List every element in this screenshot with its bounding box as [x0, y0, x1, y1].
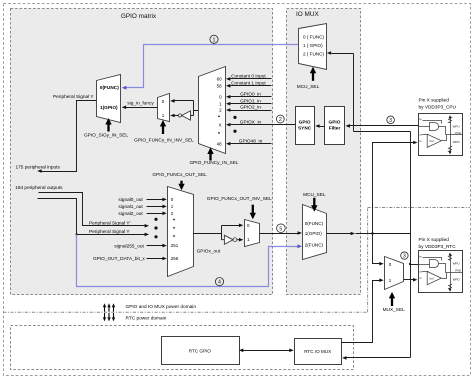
- wire out-inv mux to IO MUX 1(GPIO) (5): [260, 231, 303, 235]
- svg-text:RTC IO MUX: RTC IO MUX: [304, 349, 331, 354]
- svg-text:1: 1: [213, 37, 216, 43]
- svg-text:4: 4: [218, 280, 221, 286]
- wire signal255_out: [114, 243, 167, 249]
- svg-text:ie: ie: [419, 117, 422, 121]
- svg-text:Peripheral Signal Y: Peripheral Signal Y: [53, 94, 94, 100]
- wire sig_in_funcy: [122, 106, 158, 110]
- wire GPIOx_out (output mux to inverter and out-inv mux): [194, 224, 244, 240]
- svg-text:oe: oe: [419, 132, 423, 136]
- svg-text:by VDD3P3_RTC: by VDD3P3_RTC: [419, 244, 457, 250]
- node circle 1: [210, 35, 218, 43]
- svg-text:256: 256: [171, 256, 179, 261]
- svg-text:RTC GPIO: RTC GPIO: [189, 348, 212, 353]
- wire big input mux output to inv-mux input 0: [170, 99, 198, 115]
- svg-text:buf: buf: [430, 139, 434, 143]
- pin cell X (CPU domain): [419, 114, 463, 156]
- svg-text:sig_in_funcy: sig_in_funcy: [127, 101, 154, 107]
- svg-text:ie: ie: [419, 255, 422, 259]
- svg-text:GPIO_FUNCy_IN_INV_SEL: GPIO_FUNCy_IN_INV_SEL: [134, 137, 194, 143]
- svg-text:signal255_out: signal255_out: [114, 243, 144, 249]
- svg-text:Constant 0 input: Constant 0 input: [231, 74, 266, 80]
- svg-text:175 peripheral inputs: 175 peripheral inputs: [16, 164, 61, 170]
- node dots left of output mux: [154, 218, 157, 239]
- mux GPIO_FUNCy_IN_INV_SEL: [158, 94, 170, 122]
- svg-text:GPIO48_in: GPIO48_in: [239, 138, 263, 144]
- svg-text:GPIO1_in: GPIO1_in: [240, 98, 261, 104]
- svg-text:IO MUX: IO MUX: [296, 11, 319, 18]
- wire RTC GPIO to RTC IO MUX (double arrow): [239, 349, 294, 353]
- pin buffer to pad wire CPU: [442, 135, 447, 141]
- wire peripheral output Y': [39, 193, 150, 228]
- wire GPIOX_in: [226, 119, 296, 126]
- svg-text:Pin X supplied: Pin X supplied: [419, 237, 450, 243]
- svg-text:MUX_SEL: MUX_SEL: [383, 307, 406, 313]
- RTC GPIO box: [162, 337, 240, 365]
- pin cell X (RTC domain): [419, 251, 463, 293]
- svg-text:GPIO and IO MUX power domain: GPIO and IO MUX power domain: [126, 304, 197, 310]
- pin oe wire RTC: [423, 271, 429, 273]
- svg-text:GPIO_FUNCx_OUT_SEL: GPIO_FUNCx_OUT_SEL: [152, 172, 207, 178]
- wire Constant 0 input (row 60): [226, 74, 272, 81]
- pin pull resistors RTC: [449, 255, 452, 290]
- svg-text:in: in: [419, 139, 422, 143]
- wire blue FUNC input path (1): [122, 45, 299, 90]
- svg-text:0(FUNC): 0(FUNC): [100, 85, 119, 91]
- select arrow GPIO_FUNCx_OUT_INV_SEL: [250, 205, 256, 220]
- svg-text:60: 60: [217, 77, 223, 82]
- wire GPIO48_in: [226, 138, 272, 145]
- pin input wire CPU: [419, 126, 430, 128]
- svg-text:GPIO2_in: GPIO2_in: [240, 105, 261, 111]
- node circle 2: [276, 115, 284, 123]
- svg-text:RTC power domain: RTC power domain: [126, 315, 167, 321]
- pin input gate CPU: [430, 123, 439, 131]
- svg-text:3: 3: [403, 254, 406, 260]
- svg-text:48: 48: [217, 141, 223, 146]
- pin pad wire RTC: [446, 272, 463, 274]
- wire RTC mux output to RTC pin driver: [404, 278, 418, 282]
- select arrow GPIO_SIGy_IN_SEL: [105, 118, 111, 132]
- wire pin column down into RTC IO MUX: [342, 356, 410, 360]
- wire pad net vertical V1: [353, 54, 355, 132]
- pin ie wire RTC: [423, 258, 442, 261]
- inverter U1 (input path): [170, 111, 193, 120]
- svg-text:3: 3: [389, 118, 392, 124]
- node circle 3 top: [387, 116, 395, 124]
- svg-text:251: 251: [171, 243, 179, 248]
- svg-text:GPIO_OUT_DATA_bit_x: GPIO_OUT_DATA_bit_x: [93, 256, 145, 262]
- svg-text:1(GPIO): 1(GPIO): [100, 105, 118, 111]
- pin input gate RTC: [430, 260, 439, 268]
- wire signal2_out: [118, 211, 166, 217]
- GPIO Filter box: [325, 107, 345, 145]
- pin output buffer CPU: [427, 134, 441, 147]
- power domain boundary: [3, 208, 470, 313]
- wire peripheral signal Y output to 175 peripheral inputs: [37, 101, 96, 173]
- pin pull resistors CPU: [449, 118, 452, 153]
- wire CPU pad to GPIO Filter (3): [346, 124, 419, 128]
- wire GPIO2_in: [226, 105, 272, 112]
- label Pin X supplied by VDD3P3_CPU: [419, 97, 457, 110]
- wire into CPU pin driver: [373, 141, 418, 233]
- svg-text:Constant 1 input: Constant 1 input: [231, 81, 266, 87]
- mux MUX_SEL (RTC): [385, 257, 404, 290]
- node circle 3 bottom: [401, 252, 408, 260]
- svg-text:PAD: PAD: [455, 131, 461, 135]
- GPIO SYNC box: [296, 107, 315, 145]
- svg-text:GPIO: GPIO: [329, 120, 341, 126]
- wire GPIO Filter to GPIO SYNC: [315, 124, 324, 128]
- svg-text:1 ( GPIO): 1 ( GPIO): [303, 43, 323, 48]
- svg-text:signal0_out: signal0_out: [118, 197, 143, 203]
- wire RTC IO MUX up to RTC mux input 1: [342, 278, 384, 342]
- pin output buffer RTC: [427, 272, 441, 285]
- svg-text:PAD: PAD: [455, 269, 461, 273]
- svg-text:signal2_out: signal2_out: [118, 211, 143, 217]
- wire IO MUX output to pin column: [327, 232, 411, 236]
- svg-text:SYNC: SYNC: [298, 126, 312, 132]
- svg-text:X: X: [219, 122, 222, 127]
- wire pad net H1 to pin column: [354, 131, 411, 133]
- wire branch to RTC mux input 0: [373, 234, 384, 266]
- svg-text:WPU: WPU: [453, 262, 460, 266]
- mux GPIO_FUNCx_OUT_INV_SEL: [245, 220, 260, 247]
- pin input wire RTC: [419, 264, 430, 266]
- svg-text:by VDD3P3_CPU: by VDD3P3_CPU: [419, 104, 457, 110]
- svg-text:GPIO_SIGy_IN_SEL: GPIO_SIGy_IN_SEL: [84, 132, 128, 138]
- svg-text:2 ( FUNC): 2 ( FUNC): [303, 51, 324, 56]
- GPIO matrix block: [11, 9, 273, 295]
- svg-text:0 ( FUNC): 0 ( FUNC): [303, 35, 324, 40]
- IO MUX block: [287, 9, 361, 295]
- svg-text:Filter: Filter: [329, 126, 341, 132]
- wire GPIO1_in: [226, 98, 272, 105]
- wire GPIO0_in: [226, 92, 272, 99]
- svg-text:GPIO: GPIO: [299, 120, 311, 126]
- pin buffer to pad wire RTC: [442, 273, 447, 279]
- node circle 5: [277, 224, 286, 233]
- svg-text:Peripheral Signal Y': Peripheral Signal Y': [89, 221, 131, 227]
- svg-text:2(FUNC): 2(FUNC): [305, 243, 324, 248]
- select arrow MCU_SEL bottom: [311, 198, 317, 212]
- mux MCU_SEL (IO MUX input select): [299, 24, 327, 70]
- svg-text:184 peripheral outputs: 184 peripheral outputs: [15, 185, 63, 191]
- RTC power domain dashed box: [11, 326, 354, 370]
- svg-text:WPD: WPD: [453, 140, 460, 144]
- svg-text:Peripheral Signal Y: Peripheral Signal Y: [89, 229, 130, 235]
- node dots left of X row: [233, 116, 236, 133]
- label Pin X supplied by VDD3P3_RTC: [419, 237, 457, 250]
- select arrow GPIO_FUNCx_OUT_SEL: [178, 181, 184, 191]
- RTC IO MUX box: [295, 339, 342, 365]
- svg-text:GPIO matrix: GPIO matrix: [121, 13, 157, 20]
- svg-text:in: in: [419, 276, 422, 280]
- pin gate to pad wire CPU: [439, 127, 446, 135]
- svg-text:Pin X supplied: Pin X supplied: [419, 97, 450, 103]
- svg-text:GPIO0_in: GPIO0_in: [240, 92, 261, 98]
- svg-text:1(GPIO): 1(GPIO): [305, 231, 323, 236]
- wire blue FUNC output path (4): [77, 235, 303, 287]
- power domain crossing arrows: [103, 303, 115, 321]
- svg-text:GPIOx_out: GPIOx_out: [197, 248, 221, 254]
- svg-text:oe: oe: [419, 270, 423, 274]
- mux GPIO_FUNCy_IN_SEL (big input mux): [199, 67, 226, 154]
- pin oe wire CPU: [423, 134, 429, 136]
- node circle 4: [215, 278, 223, 286]
- svg-text:5: 5: [279, 226, 282, 232]
- svg-text:buf: buf: [430, 276, 434, 280]
- svg-text:MCU_SEL: MCU_SEL: [303, 192, 326, 198]
- wire Constant 1 input (row 58): [226, 81, 272, 88]
- svg-text:0(FUNC): 0(FUNC): [305, 221, 324, 226]
- svg-text:58: 58: [217, 83, 223, 88]
- svg-text:MCU_SEL: MCU_SEL: [297, 84, 320, 90]
- svg-text:GPIO_FUNCy_IN_SEL: GPIO_FUNCy_IN_SEL: [189, 160, 238, 166]
- pin gate to pad wire RTC: [439, 264, 446, 273]
- wire RTC pin input stub: [409, 263, 419, 265]
- svg-text:WPD: WPD: [453, 277, 460, 281]
- wire signal1_out: [118, 204, 166, 210]
- select arrow GPIO_FUNCy_IN_SEL: [207, 147, 213, 160]
- select arrow GPIO_FUNCy_IN_INV_SEL: [160, 120, 166, 134]
- wire pin column vertical V2: [410, 132, 412, 358]
- wire signal0_out: [118, 197, 166, 203]
- mux GPIO_FUNCx_OUT_SEL (big output mux): [168, 187, 194, 277]
- svg-text:WPU: WPU: [453, 124, 460, 128]
- pin pad wire CPU: [446, 134, 463, 136]
- inverter U2 (output path): [224, 235, 243, 244]
- mux GPIO_SIGy_IN_SEL: [97, 75, 121, 123]
- wire peripheral output Y (with branch to blue FUNC path): [38, 199, 150, 237]
- select arrow MUX_SEL: [389, 292, 395, 306]
- select arrow MCU_SEL top: [310, 67, 316, 81]
- wire GPIO_OUT_DATA_bit_x: [93, 256, 167, 262]
- svg-text:2: 2: [279, 117, 282, 123]
- svg-text:GPIOX_in: GPIOX_in: [240, 119, 262, 125]
- mux MCU_SEL (IO MUX output select): [303, 205, 327, 260]
- pin ie wire CPU: [423, 121, 442, 124]
- wire top mux 2(FUNC) input from pad vertical: [327, 51, 354, 55]
- svg-text:signal1_out: signal1_out: [118, 204, 143, 210]
- svg-text:GPIO_FUNCx_OUT_INV_SEL: GPIO_FUNCx_OUT_INV_SEL: [207, 196, 272, 202]
